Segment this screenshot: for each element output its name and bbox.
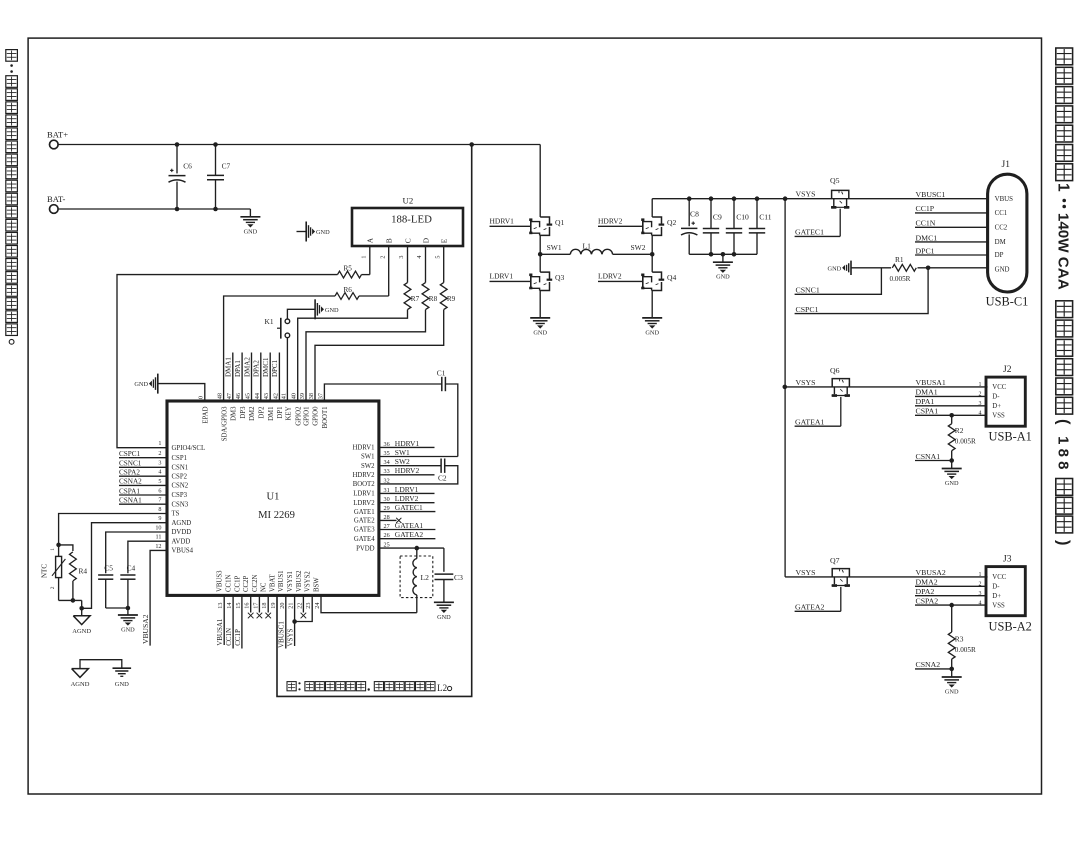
inductor L2 (optional, dashed box) (400, 556, 433, 598)
svg-text:17: 17 (252, 603, 259, 609)
capacitor C6 (polar) (176, 145, 178, 174)
svg-text:CSP3: CSP3 (172, 492, 188, 499)
wire BSW to L2 (321, 595, 417, 612)
svg-text:CC1: CC1 (995, 210, 1008, 217)
wire VSYS feed down to Q6/Q7 (784, 199, 786, 577)
wire R6 to U2.B (359, 295, 389, 297)
svg-text:VBUS4: VBUS4 (172, 548, 194, 555)
svg-text:GATE4: GATE4 (354, 536, 375, 543)
wire R8 to GPIO1 (306, 310, 426, 401)
svg-text:BAT-: BAT- (47, 194, 65, 204)
svg-text:VSS: VSS (992, 413, 1005, 420)
svg-text:CC1N: CC1N (916, 219, 936, 228)
svg-text:CSPA1: CSPA1 (916, 407, 939, 416)
wire PVDD to L2/C3 (379, 547, 444, 549)
svg-text:J2: J2 (1003, 365, 1012, 375)
capacitor C8 (polar) (687, 196, 692, 201)
svg-text:GPIO2: GPIO2 (295, 406, 302, 426)
svg-text:4: 4 (979, 600, 982, 606)
svg-text:DM3: DM3 (231, 406, 238, 421)
svg-text:GATEC1: GATEC1 (395, 503, 423, 512)
svg-text:VBUSA1: VBUSA1 (916, 378, 946, 387)
svg-text:DPA1: DPA1 (234, 360, 242, 377)
wire HDRV2 net stub (379, 474, 435, 476)
svg-text:LDRV1: LDRV1 (490, 271, 514, 280)
svg-text:CSNC1: CSNC1 (796, 286, 820, 295)
wire K1 to GND (287, 309, 315, 319)
no-connect stub with X (258, 595, 260, 612)
ground below Q3 (539, 291, 541, 318)
svg-text:20: 20 (279, 603, 286, 609)
svg-text:VBUSA2: VBUSA2 (916, 568, 946, 577)
svg-text:USB-A1: USB-A1 (989, 430, 1032, 444)
svg-text:16: 16 (244, 603, 251, 609)
svg-text:CSN2: CSN2 (172, 483, 189, 490)
svg-text:): ) (1054, 540, 1072, 546)
svg-text:DMC1: DMC1 (262, 357, 270, 377)
svg-text:22: 22 (296, 603, 303, 609)
svg-text:15: 15 (235, 603, 242, 609)
svg-text:3: 3 (158, 460, 161, 467)
svg-text:5: 5 (434, 256, 441, 259)
svg-text:2: 2 (158, 450, 161, 457)
svg-text:VBUSC1: VBUSC1 (278, 621, 286, 648)
svg-text:2: 2 (50, 586, 56, 589)
svg-text:6: 6 (158, 487, 161, 494)
svg-text:VSYS2: VSYS2 (305, 571, 312, 592)
svg-text:GND: GND (716, 274, 730, 281)
svg-text:NC: NC (261, 582, 268, 592)
svg-text:LDRV1: LDRV1 (353, 491, 374, 498)
wire U2 pin B stub (388, 246, 390, 296)
svg-text:R5: R5 (344, 264, 353, 272)
svg-text:CSN3: CSN3 (172, 501, 189, 508)
svg-text:SW1: SW1 (395, 448, 410, 457)
svg-text:HDRV1: HDRV1 (490, 216, 515, 225)
svg-text:DPC1: DPC1 (271, 359, 279, 377)
wire HDRV1 net stub (379, 446, 435, 448)
capacitor C10 (732, 196, 737, 201)
svg-text:DMC1: DMC1 (916, 233, 938, 242)
shunt resistor R3 0.005R (949, 603, 954, 608)
svg-text:1: 1 (158, 440, 161, 447)
svg-text:CC1P: CC1P (234, 629, 242, 646)
node SW2 (651, 235, 653, 254)
svg-text:D+: D+ (992, 403, 1001, 410)
svg-text:10: 10 (155, 524, 161, 531)
ground below Q4 (651, 291, 653, 318)
svg-text:DVDD: DVDD (172, 529, 192, 536)
svg-text:KEY: KEY (285, 406, 292, 420)
svg-text:C10: C10 (736, 213, 749, 222)
svg-text:SW2: SW2 (361, 463, 375, 470)
wire U2 pin D stub (425, 246, 427, 283)
svg-text:CSNA2: CSNA2 (916, 660, 941, 669)
svg-text:GND: GND (995, 266, 1010, 273)
inductor L1 (540, 253, 570, 255)
svg-text:Q7: Q7 (830, 556, 840, 565)
svg-text:12: 12 (155, 543, 161, 550)
wire R9 to GPIO0 (315, 310, 444, 401)
capacitor C2 (BOOT2-SW2) (379, 465, 441, 467)
wire TS to NTC (59, 514, 167, 545)
svg-text:188: 188 (1054, 436, 1071, 474)
capacitor C9 (709, 196, 714, 201)
svg-text:2: 2 (979, 582, 982, 588)
wire CC1N net on pin 14 (232, 595, 234, 648)
svg-text:CSPA2: CSPA2 (119, 469, 140, 477)
svg-text:LDRV2: LDRV2 (598, 271, 622, 280)
svg-text:C2: C2 (438, 473, 447, 482)
wire U2 pin C stub (407, 246, 409, 283)
svg-text:C1: C1 (437, 369, 446, 378)
svg-text:DPA2: DPA2 (253, 360, 261, 377)
svg-text:USB-A2: USB-A2 (989, 619, 1032, 633)
svg-text:GND: GND (437, 614, 451, 621)
wire GATEA1 net stub (379, 529, 436, 531)
svg-text:11: 11 (156, 534, 162, 541)
shunt resistor R2 0.005R (949, 413, 954, 418)
svg-text:SW1: SW1 (361, 454, 375, 461)
svg-text:CSNA2: CSNA2 (119, 478, 142, 486)
svg-text:PVDD: PVDD (356, 545, 375, 552)
svg-text:GATEC1: GATEC1 (795, 227, 824, 236)
svg-text:13: 13 (217, 603, 224, 609)
svg-text:C6: C6 (183, 162, 192, 171)
svg-text:DMA2: DMA2 (916, 578, 938, 587)
AGND-GND tie (80, 660, 122, 669)
svg-text:HDRV2: HDRV2 (395, 466, 420, 475)
svg-text:21: 21 (288, 603, 295, 609)
svg-text:5: 5 (158, 478, 161, 485)
svg-text:EPAD: EPAD (202, 406, 209, 423)
right margin vertical title: 典型应用原理图 1：140W CAA 多口移动电源（188 屏显示） (1056, 48, 1073, 65)
svg-text:0.005R: 0.005R (890, 275, 911, 283)
svg-text:GPIO4/SCL: GPIO4/SCL (172, 445, 206, 452)
svg-text:L2: L2 (437, 683, 447, 693)
svg-text:Q5: Q5 (830, 176, 840, 185)
svg-text:41: 41 (281, 393, 288, 399)
svg-text:MI 2269: MI 2269 (258, 510, 295, 521)
svg-text:R4: R4 (79, 567, 88, 576)
wire K1 to U1 KEY (286, 338, 288, 401)
svg-text:2: 2 (979, 392, 982, 398)
pin 28 no-connect stub (379, 519, 397, 521)
svg-text:3: 3 (979, 401, 982, 407)
svg-text:VBUSC1: VBUSC1 (916, 190, 946, 199)
ground below R2 (951, 461, 953, 469)
svg-text:VSYS: VSYS (796, 568, 816, 577)
svg-text:LDRV2: LDRV2 (353, 500, 375, 507)
svg-text:BSW: BSW (313, 577, 320, 592)
svg-text:VBUS: VBUS (995, 196, 1014, 203)
svg-text:1: 1 (50, 548, 56, 551)
svg-text:SW2: SW2 (395, 457, 410, 466)
svg-text:CSP2: CSP2 (172, 473, 188, 480)
AGND symbol (81, 608, 83, 616)
wire CC1P net on pin 15 (241, 595, 243, 648)
svg-text:1: 1 (1054, 183, 1071, 192)
svg-text:CC1P: CC1P (234, 576, 241, 592)
svg-text:48: 48 (217, 393, 224, 399)
resistor R7 (404, 283, 411, 310)
wire U2 pin E stub (443, 246, 445, 283)
svg-text:VBUS3: VBUS3 (217, 570, 224, 592)
resistor R5 (338, 271, 362, 278)
svg-text:DPC1: DPC1 (916, 246, 935, 255)
no-connect stub with X (267, 595, 269, 612)
svg-text:4: 4 (416, 256, 423, 259)
svg-text:3: 3 (398, 256, 405, 259)
svg-text:Q3: Q3 (555, 273, 564, 282)
svg-text:HDRV2: HDRV2 (598, 216, 623, 225)
svg-text:U2: U2 (403, 195, 414, 205)
wire VBUSA1 net on pin 13 (223, 595, 225, 645)
svg-text:0.005R: 0.005R (955, 438, 976, 446)
svg-text:14: 14 (226, 603, 233, 609)
svg-text:VCC: VCC (992, 384, 1006, 391)
svg-text:9: 9 (158, 515, 161, 522)
ground below C3 (434, 601, 454, 603)
left margin vertical note: 注：实际应用原理图以原厂另行提供的原理图为准。 (6, 50, 18, 62)
svg-text:C8: C8 (690, 210, 699, 219)
svg-text:24: 24 (314, 603, 321, 609)
svg-text:R6: R6 (344, 286, 353, 294)
shunt resistor R1 0.005R (850, 261, 852, 275)
no-connect stub with X (250, 595, 252, 612)
svg-text:AGND: AGND (72, 628, 91, 635)
svg-text:C7: C7 (222, 162, 231, 171)
svg-text:GATEA1: GATEA1 (395, 521, 424, 530)
transistor Q1 (539, 145, 541, 218)
wire LDRV2 net stub (379, 502, 435, 504)
svg-text:GND: GND (945, 480, 959, 487)
svg-text:39: 39 (299, 393, 306, 399)
wire cap bank common (689, 253, 757, 255)
svg-text:VBUS1: VBUS1 (278, 570, 285, 592)
wire R6 to U1 SDA/GPIO3 (224, 296, 335, 401)
EPAD ground (157, 374, 159, 394)
svg-text:Q4: Q4 (667, 273, 676, 282)
svg-text:GND: GND (945, 689, 959, 696)
svg-text:CSNA1: CSNA1 (916, 452, 941, 461)
svg-text:CC2N: CC2N (252, 575, 259, 592)
svg-text:L1: L1 (583, 242, 592, 251)
svg-text:CSPA2: CSPA2 (916, 596, 939, 605)
svg-text:VCC: VCC (992, 574, 1006, 581)
svg-text:D+: D+ (992, 593, 1001, 600)
svg-text:GATE1: GATE1 (354, 509, 375, 516)
svg-text:VBUSA2: VBUSA2 (141, 614, 150, 644)
svg-text:VSYS: VSYS (286, 628, 294, 646)
svg-text:GND: GND (121, 627, 135, 634)
svg-text:GPIO0: GPIO0 (313, 406, 320, 426)
svg-text:LDRV1: LDRV1 (395, 485, 419, 494)
svg-text:7: 7 (158, 497, 161, 504)
capacitor C5 on DVDD (106, 532, 167, 573)
svg-text:BAT+: BAT+ (47, 129, 68, 139)
svg-text:VBAT: VBAT (269, 573, 276, 592)
wire LDRV1 net stub (379, 492, 435, 494)
svg-text:DP3: DP3 (240, 406, 247, 419)
resistor R9 (440, 283, 447, 310)
svg-text:19: 19 (270, 603, 277, 609)
svg-text:GND: GND (316, 229, 330, 236)
svg-text:B: B (385, 238, 394, 243)
svg-text:DMA1: DMA1 (916, 388, 938, 397)
wire R7 to GPIO2 (298, 310, 408, 401)
svg-text:R1: R1 (895, 255, 904, 264)
svg-text:40: 40 (291, 393, 298, 399)
IC U1 MI2269 (167, 401, 379, 595)
svg-text:1: 1 (979, 572, 982, 578)
svg-text:VBUS2: VBUS2 (296, 570, 303, 592)
svg-text:C4: C4 (127, 563, 136, 572)
svg-text:0.005R: 0.005R (955, 646, 976, 654)
wire U2 pin A stub (369, 246, 371, 275)
svg-text:DM: DM (995, 239, 1006, 246)
svg-text:VBUSA1: VBUSA1 (216, 618, 224, 646)
svg-text:DP1: DP1 (277, 407, 284, 419)
svg-text:GATEA1: GATEA1 (795, 417, 825, 426)
svg-text:2: 2 (379, 256, 386, 259)
svg-text:SDA/GPIO3: SDA/GPIO3 (221, 406, 228, 441)
wire BAT+ rail (58, 144, 540, 146)
svg-text:8: 8 (158, 506, 161, 513)
transistor Q3 (539, 254, 541, 272)
svg-text:R8: R8 (429, 295, 438, 303)
svg-text:CC1N: CC1N (225, 628, 233, 646)
wire VBUSC1 net on pin 20 (285, 595, 287, 648)
wire VBUS4 to VBUSA2 net (150, 550, 167, 645)
svg-text:D-: D- (992, 584, 1000, 591)
svg-text:AGND: AGND (172, 520, 192, 527)
svg-text:Q6: Q6 (830, 366, 840, 375)
connector BAT- terminal (50, 205, 59, 214)
thermistor NTC (58, 545, 60, 557)
svg-text:(: ( (1054, 419, 1072, 425)
svg-text:SW2: SW2 (631, 243, 646, 252)
svg-text:HDRV1: HDRV1 (352, 445, 374, 452)
svg-text:DM1: DM1 (268, 407, 275, 421)
svg-text:CSN1: CSN1 (172, 465, 189, 472)
svg-text:BOOT2: BOOT2 (353, 481, 376, 488)
svg-text:CSP1: CSP1 (172, 455, 188, 462)
svg-text:Q2: Q2 (667, 218, 676, 227)
svg-text:GND: GND (325, 307, 339, 314)
svg-text:AVDD: AVDD (172, 538, 191, 545)
floating GND marker near U2 (297, 231, 307, 233)
svg-text:DPA1: DPA1 (916, 397, 935, 406)
ground below R3 (951, 669, 953, 677)
svg-text:R2: R2 (955, 426, 964, 435)
svg-text:GND: GND (828, 265, 842, 272)
svg-text:VSYS: VSYS (796, 378, 816, 387)
svg-text:DMA2: DMA2 (243, 357, 251, 377)
svg-text:GND: GND (115, 681, 129, 688)
svg-text:188-LED: 188-LED (391, 214, 432, 226)
svg-text:GND: GND (244, 228, 258, 235)
svg-text:CSNC1: CSNC1 (119, 460, 142, 468)
svg-text:R3: R3 (955, 634, 964, 643)
svg-text:CC2: CC2 (995, 224, 1008, 231)
wire GATEC1 net stub (379, 511, 436, 513)
svg-text:E: E (440, 238, 449, 243)
svg-text:DM2: DM2 (249, 406, 256, 421)
svg-text:R7: R7 (411, 295, 420, 303)
svg-text:DMA1: DMA1 (225, 357, 233, 377)
svg-text:CSPC1: CSPC1 (796, 305, 819, 314)
svg-text:DPA2: DPA2 (916, 587, 935, 596)
svg-text:CC1P: CC1P (916, 204, 935, 213)
wire VSYS net on pin 21 (294, 595, 296, 646)
no-connect stub pin 22 (302, 595, 304, 612)
svg-text:3: 3 (979, 591, 982, 597)
wire SW1 to C1 (379, 456, 458, 458)
svg-text:BOOT1: BOOT1 (322, 407, 329, 429)
svg-text:4: 4 (158, 469, 161, 476)
svg-text:44: 44 (254, 393, 261, 399)
wire VBAT loop to BAT+ rail (277, 145, 472, 697)
transistor Q2 (651, 199, 653, 217)
svg-text:HDRV2: HDRV2 (352, 472, 375, 479)
capacitor C3 (443, 548, 445, 572)
svg-text:46: 46 (235, 393, 242, 399)
svg-text:J1: J1 (1002, 160, 1011, 170)
svg-text:VSS: VSS (992, 602, 1005, 609)
svg-text:C: C (403, 238, 412, 243)
svg-text:1: 1 (979, 382, 982, 388)
wire VSYS rail (652, 198, 987, 200)
svg-text:GATEA2: GATEA2 (395, 530, 424, 539)
svg-text:USB-C1: USB-C1 (986, 295, 1029, 309)
svg-text:0: 0 (197, 396, 204, 399)
svg-text:DP2: DP2 (259, 406, 266, 419)
transistor Q4 (651, 254, 653, 272)
svg-text:CC2P: CC2P (243, 576, 250, 592)
svg-text:CSNA1: CSNA1 (119, 497, 142, 505)
svg-text:CSPA1: CSPA1 (119, 487, 140, 495)
wire NTC/R4 bottom to AGND (58, 599, 60, 601)
svg-text:GND: GND (533, 329, 547, 336)
svg-text:GND: GND (134, 381, 148, 388)
capacitor C7 (215, 145, 217, 176)
svg-text:VSYS: VSYS (796, 189, 816, 198)
svg-text:43: 43 (263, 393, 270, 399)
svg-text:CC1N: CC1N (226, 575, 233, 592)
svg-text:A: A (366, 237, 375, 243)
capacitor C11 (755, 196, 760, 201)
note text: 注：根据实际应用，选择是否使用L2。 (287, 682, 296, 691)
svg-text:C3: C3 (454, 573, 463, 582)
svg-text:47: 47 (226, 393, 233, 399)
svg-text:D: D (421, 237, 430, 243)
svg-text:CSPC1: CSPC1 (119, 450, 141, 458)
resistor R6 (335, 293, 359, 300)
node SW1 (539, 235, 541, 254)
svg-text:GATE3: GATE3 (354, 527, 375, 534)
resistor R8 (422, 283, 429, 310)
svg-text:VSYS1: VSYS1 (287, 571, 294, 592)
wire BAT- rail (58, 208, 250, 210)
wire C5/C4 commons to GND (106, 607, 128, 609)
svg-text:TS: TS (172, 511, 180, 518)
wire AGND pin 9 (82, 523, 167, 609)
svg-text:DP: DP (995, 252, 1004, 259)
svg-text:R9: R9 (447, 295, 456, 303)
svg-text:HDRV1: HDRV1 (395, 439, 420, 448)
svg-text:U1: U1 (267, 492, 280, 503)
